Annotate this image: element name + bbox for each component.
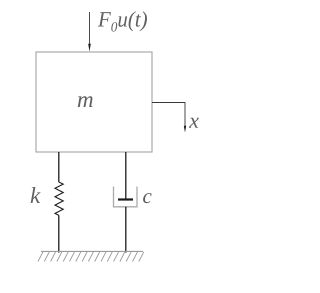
ground line <box>41 250 143 252</box>
displacement arrow x <box>152 103 186 133</box>
label m <box>78 96 93 107</box>
damper piston bar <box>118 198 133 200</box>
ground hatching <box>38 252 144 262</box>
force arrow F0u(t) <box>88 12 91 52</box>
label x <box>189 118 199 128</box>
wire from spring to ground <box>58 215 60 252</box>
mass block m <box>36 52 152 152</box>
label F0u(t) <box>98 11 147 31</box>
label k <box>31 187 41 203</box>
damper cylinder <box>114 187 138 207</box>
wire from mass to spring <box>58 152 60 182</box>
label c <box>143 193 152 203</box>
spring k <box>55 182 63 215</box>
wire from damper to ground <box>125 207 127 253</box>
wire from mass to damper piston <box>125 152 127 199</box>
